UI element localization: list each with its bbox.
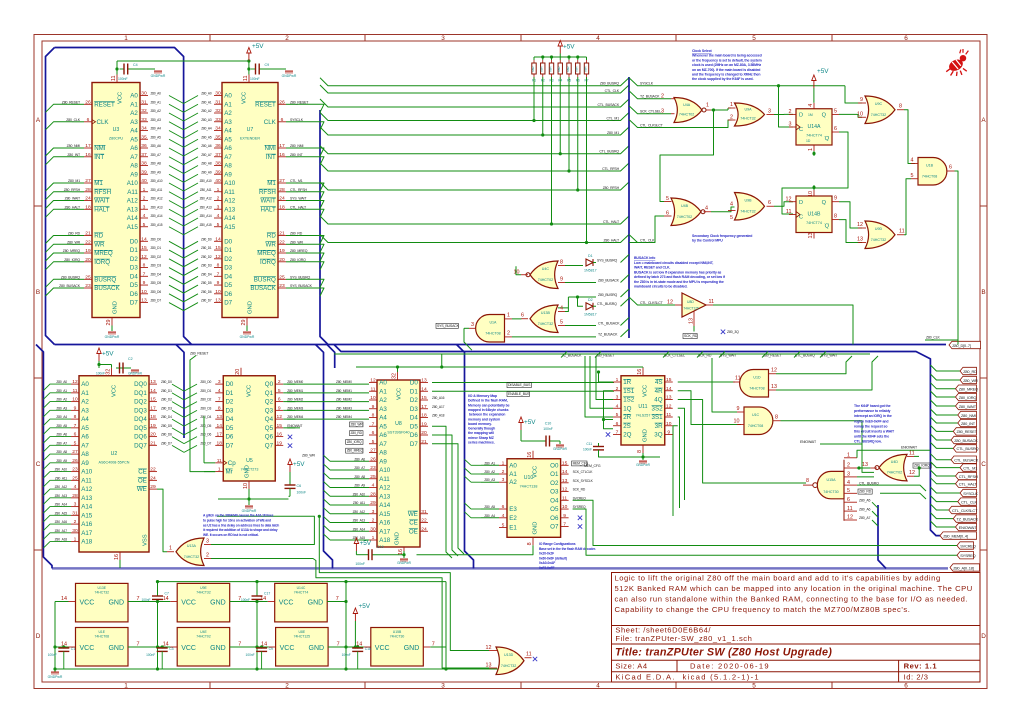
svg-text:30: 30 — [141, 91, 147, 97]
svg-text:Z80_MREQ: Z80_MREQ — [347, 449, 364, 453]
kicad logo — [946, 49, 968, 76]
svg-text:14: 14 — [421, 386, 427, 392]
svg-text:Z80_A11: Z80_A11 — [200, 188, 212, 192]
svg-text:24: 24 — [421, 526, 427, 532]
svg-text:Z80_A3: Z80_A3 — [484, 478, 495, 482]
svg-text:Z80_3Q: Z80_3Q — [727, 330, 739, 334]
svg-text:CTL_BUSACK: CTL_BUSACK — [598, 103, 620, 107]
power U5 +5V C6 — [285, 459, 307, 496]
svg-text:ENABLE_BUS: ENABLE_BUS — [508, 392, 530, 396]
svg-text:D5: D5 — [224, 282, 232, 289]
svg-text:5: 5 — [911, 173, 914, 179]
svg-text:O4: O4 — [550, 497, 559, 504]
svg-text:8: 8 — [899, 104, 902, 110]
wire U5 data bus entries — [184, 384, 197, 452]
svg-text:until the K64F sets the: until the K64F sets the — [854, 435, 889, 439]
svg-text:U15B: U15B — [393, 630, 402, 634]
svg-text:Z80_A1: Z80_A1 — [56, 389, 67, 393]
svg-text:Z80_D6: Z80_D6 — [200, 433, 211, 437]
svg-text:8: 8 — [637, 450, 643, 453]
svg-text:18: 18 — [279, 204, 285, 210]
svg-text:3: 3 — [789, 122, 792, 128]
ic U3 Z80CPU — [59, 75, 140, 326]
power GNDPWR — [282, 71, 297, 78]
svg-text:Z80_RESET: Z80_RESET — [190, 351, 209, 355]
svg-text:A0: A0 — [130, 93, 138, 100]
svg-text:13: 13 — [486, 663, 492, 669]
ic U7 EXTENDER — [222, 75, 313, 326]
svg-text:1: 1 — [507, 313, 510, 319]
svg-text:1M: 1M — [808, 113, 813, 117]
svg-text:TZ_BUSACK: TZ_BUSACK — [956, 516, 978, 521]
wire zone1 right bus entries — [298, 104, 324, 296]
power GNDPWR — [400, 559, 408, 562]
svg-text:Z80_A0: Z80_A0 — [56, 380, 67, 384]
wire U1B pin5 from below — [906, 179, 911, 235]
svg-text:WAIT: WAIT — [94, 198, 109, 205]
svg-text:29: 29 — [150, 484, 156, 490]
svg-text:Z80_A4: Z80_A4 — [56, 415, 67, 419]
svg-text:74HCT32: 74HCT32 — [871, 113, 886, 117]
svg-text:D2: D2 — [588, 298, 593, 302]
svg-text:Z80_A6: Z80_A6 — [201, 144, 212, 148]
svg-text:A6: A6 — [224, 145, 232, 152]
svg-text:GND: GND — [248, 301, 254, 314]
svg-text:D7: D7 — [224, 300, 232, 307]
svg-text:11: 11 — [111, 76, 117, 82]
svg-text:74HCT08: 74HCT08 — [749, 386, 764, 390]
svg-text:D3: D3 — [130, 265, 138, 272]
svg-text:D4: D4 — [225, 416, 233, 423]
svg-text:U4A: U4A — [683, 103, 691, 107]
svg-text:2: 2 — [285, 35, 289, 42]
svg-text:5: 5 — [752, 35, 756, 42]
svg-text:A2: A2 — [379, 397, 387, 404]
svg-text:13: 13 — [215, 298, 221, 304]
svg-text:A14: A14 — [224, 215, 236, 222]
svg-text:10: 10 — [666, 421, 672, 427]
or gate U9D 74HCT32 — [857, 221, 905, 249]
svg-text:Z80_D0: Z80_D0 — [201, 237, 212, 241]
wire ENABLE_BUS — [432, 391, 614, 396]
svg-text:4: 4 — [143, 213, 146, 219]
svg-text:74HCT32: 74HCT32 — [94, 591, 109, 595]
svg-text:A11: A11 — [224, 189, 235, 196]
resistor R4 — [557, 60, 562, 83]
svg-text:+5V: +5V — [817, 68, 829, 75]
svg-text:Z80_D7: Z80_D7 — [201, 299, 212, 303]
svg-text:27: 27 — [72, 449, 78, 455]
svg-text:28: 28 — [279, 187, 285, 193]
wire resistor rail — [534, 54, 587, 61]
svg-text:Memory can potentially be: Memory can potentially be — [468, 403, 510, 407]
wire U1C out — [781, 421, 875, 473]
svg-text:A18: A18 — [379, 537, 391, 544]
svg-text:Z80_RD: Z80_RD — [290, 232, 303, 236]
svg-text:10: 10 — [808, 191, 814, 197]
svg-text:SYS_BUSRQ: SYS_BUSRQ — [597, 258, 617, 262]
svg-text:Q2: Q2 — [265, 399, 274, 406]
svg-text:HALT: HALT — [94, 206, 110, 213]
global label Z80_INT — [958, 419, 977, 426]
svg-text:8: 8 — [217, 263, 220, 269]
svg-text:8: 8 — [834, 214, 837, 220]
svg-text:74HCT138: 74HCT138 — [520, 485, 538, 489]
svg-text:15: 15 — [215, 245, 221, 251]
svg-text:E1: E1 — [509, 525, 517, 532]
svg-text:74HCT74: 74HCT74 — [806, 221, 822, 225]
svg-text:U8: U8 — [395, 421, 402, 427]
svg-text:3: 3 — [372, 509, 375, 515]
svg-text:Z80_D6: Z80_D6 — [151, 290, 162, 294]
svg-text:or the frequency is set to def: or the frequency is set to default, the … — [692, 58, 762, 62]
svg-text:A9: A9 — [130, 171, 138, 178]
svg-text:D6: D6 — [130, 291, 138, 298]
svg-text:74HCT02: 74HCT02 — [538, 278, 553, 282]
svg-text:4R: 4R — [655, 388, 663, 395]
svg-text:25: 25 — [279, 274, 285, 280]
svg-text:13: 13 — [808, 233, 814, 239]
svg-text:38: 38 — [215, 161, 221, 167]
svg-text:74HCT74: 74HCT74 — [294, 591, 309, 595]
wire U5 gnd rail — [218, 489, 289, 505]
svg-text:Z80_D4: Z80_D4 — [151, 272, 162, 276]
svg-text:1: 1 — [730, 102, 733, 108]
svg-text:U13D: U13D — [504, 653, 514, 657]
wire U11 right connections — [673, 382, 806, 516]
svg-text:VCC: VCC — [533, 466, 539, 478]
power +5V zone4 — [353, 603, 371, 647]
svg-text:A0: A0 — [509, 462, 517, 469]
svg-text:E3: E3 — [509, 506, 517, 513]
svg-text:CTL_M1: CTL_M1 — [290, 179, 303, 183]
svg-text:Z80_A1: Z80_A1 — [201, 100, 212, 104]
svg-text:U13E: U13E — [98, 586, 107, 590]
svg-text:U1B: U1B — [926, 164, 934, 168]
and gate U1D 74HCT08 mirrored — [733, 368, 777, 398]
wire Z80_BUSRQ row — [558, 289, 629, 308]
svg-text:WE. It occurs on RD but is not: WE. It occurs on RD but is not critical. — [203, 533, 259, 537]
flip-flop U14A 74HCT74 — [789, 103, 840, 151]
svg-text:WR: WR — [265, 241, 276, 248]
capacitor C1 — [48, 645, 75, 669]
wire U3 gnd — [111, 326, 113, 332]
svg-text:D6: D6 — [225, 434, 233, 441]
svg-text:Z80_D7: Z80_D7 — [161, 441, 172, 445]
wire U14A +5V — [812, 68, 830, 103]
svg-text:Z80_D2: Z80_D2 — [151, 255, 162, 259]
svg-text:3: 3 — [441, 35, 445, 42]
resistor R2 — [540, 60, 545, 83]
svg-text:74HCT08: 74HCT08 — [748, 424, 763, 428]
power unit U1E 74HCT08 — [61, 628, 140, 667]
svg-text:10: 10 — [370, 395, 376, 401]
svg-text:6: 6 — [768, 200, 771, 206]
svg-text:Z80_D3: Z80_D3 — [200, 406, 211, 410]
svg-text:D0: D0 — [130, 238, 138, 245]
power +5V — [353, 603, 371, 621]
svg-text:Z80_A11: Z80_A11 — [151, 188, 163, 192]
svg-text:ENIOWAIT: ENIOWAIT — [901, 446, 918, 450]
svg-text:5: 5 — [143, 222, 146, 228]
svg-text:Q1: Q1 — [265, 390, 274, 397]
svg-text:4: 4 — [372, 483, 375, 489]
note text — [692, 234, 752, 243]
svg-text:EXTENDER: EXTENDER — [240, 137, 260, 141]
svg-text:A5: A5 — [224, 136, 232, 143]
svg-text:C9: C9 — [269, 647, 273, 651]
svg-text:VCC: VCC — [112, 385, 118, 397]
svg-text:Z80_CLK: Z80_CLK — [926, 336, 941, 340]
svg-text:Z80_RFSH: Z80_RFSH — [603, 186, 620, 190]
svg-text:12: 12 — [141, 254, 147, 260]
svg-text:74HCT32: 74HCT32 — [740, 117, 755, 121]
svg-text:CTL_CLK: CTL_CLK — [605, 89, 620, 93]
svg-text:A2: A2 — [81, 399, 89, 406]
svg-text:U1E: U1E — [98, 630, 105, 634]
svg-text:Z80_HALT: Z80_HALT — [65, 205, 81, 209]
global label Z80_WR — [960, 376, 978, 383]
svg-text:D7: D7 — [410, 441, 418, 448]
svg-text:Z80_MEM3: Z80_MEM3 — [287, 406, 303, 410]
svg-text:E2: E2 — [509, 515, 517, 522]
svg-text:GNDPwR: GNDPwR — [282, 74, 297, 78]
svg-text:D3: D3 — [410, 406, 418, 413]
wire ENIOWAIT row — [800, 440, 862, 444]
svg-text:Z80_NMI: Z80_NMI — [290, 144, 304, 148]
svg-text:A18: A18 — [81, 539, 93, 546]
svg-text:Q0: Q0 — [265, 381, 274, 388]
svg-text:C: C — [36, 461, 41, 468]
svg-text:74HCT32: 74HCT32 — [740, 209, 755, 213]
svg-text:U9E: U9E — [200, 586, 207, 590]
svg-text:Title: tranZPUter SW (Z80 Host: Title: tranZPUter SW (Z80 Host Upgrade) — [615, 647, 832, 659]
svg-text:74HCT32: 74HCT32 — [871, 238, 886, 242]
svg-text:MREQ: MREQ — [257, 250, 276, 257]
svg-text:Z80_MEM3: Z80_MEM3 — [336, 406, 352, 410]
svg-text:8: 8 — [806, 478, 809, 484]
svg-text:this circuit inserts a WAIT: this circuit inserts a WAIT — [854, 430, 895, 434]
svg-text:39: 39 — [141, 169, 147, 175]
and gate U1C 74HCT08 — [734, 406, 781, 435]
svg-text:+5V: +5V — [524, 419, 536, 426]
svg-text:Z80_A10: Z80_A10 — [200, 179, 212, 183]
svg-text:M1: M1 — [267, 180, 276, 187]
svg-text:VCC: VCC — [375, 645, 390, 652]
wire U8 address entries from bus — [324, 455, 370, 540]
global label SVCREQ — [957, 542, 976, 549]
svg-text:Z80_MEM1: Z80_MEM1 — [336, 389, 352, 393]
svg-text:VCC: VCC — [181, 600, 196, 607]
wire U5 cp mr — [190, 351, 215, 471]
svg-text:ENIOWAIT: ENIOWAIT — [287, 424, 302, 428]
svg-text:C4: C4 — [133, 63, 138, 67]
svg-text:U1A: U1A — [489, 321, 497, 325]
svg-text:Z80_MEM1: Z80_MEM1 — [287, 389, 303, 393]
wire Z80_CLK output — [925, 171, 958, 345]
wire control rows from zone1 to clock bus — [320, 78, 629, 243]
svg-text:100nF: 100nF — [48, 653, 57, 657]
global label Z80_MEM[0..4] — [940, 532, 977, 539]
global label CTL_CLKSLCT — [949, 506, 978, 513]
svg-text:28: 28 — [85, 187, 91, 193]
svg-text:D: D — [36, 633, 41, 640]
power +5V — [812, 68, 830, 88]
svg-text:Z80_A10: Z80_A10 — [353, 492, 366, 496]
svg-text:A9: A9 — [379, 458, 387, 465]
capacitor C4 — [118, 63, 155, 81]
svg-text:by the Control MPU: by the Control MPU — [692, 239, 723, 243]
svg-text:14: 14 — [141, 236, 147, 242]
svg-text:12: 12 — [771, 368, 777, 374]
svg-text:25: 25 — [85, 274, 91, 280]
wire U14B preset — [812, 185, 815, 190]
ic U10 74HCT138 — [481, 451, 594, 546]
svg-text:2: 2 — [730, 115, 733, 121]
svg-text:27: 27 — [85, 178, 91, 184]
svg-text:A15: A15 — [224, 224, 236, 231]
svg-text:13: 13 — [217, 414, 223, 420]
svg-text:40: 40 — [215, 178, 221, 184]
wire U13A connections — [157, 489, 489, 668]
svg-text:A11: A11 — [127, 189, 138, 196]
svg-text:RD: RD — [94, 233, 103, 240]
svg-text:MEM_CFG: MEM_CFG — [584, 464, 601, 468]
svg-text:SYS_BUSRQ: SYS_BUSRQ — [290, 275, 310, 279]
svg-text:Z80_BUSACK: Z80_BUSACK — [954, 438, 978, 443]
svg-text:DQ6: DQ6 — [134, 434, 147, 441]
svg-text:GNDPwR: GNDPwR — [240, 335, 255, 339]
capacitor C17 — [241, 592, 270, 603]
svg-text:9: 9 — [860, 97, 863, 103]
wire SYSCLK row — [629, 78, 862, 127]
svg-text:A3: A3 — [379, 406, 387, 413]
wire power zone rails — [53, 580, 515, 672]
svg-text:Z80_D2: Z80_D2 — [200, 398, 211, 402]
svg-text:1N5817: 1N5817 — [584, 312, 597, 316]
svg-text:17: 17 — [421, 404, 427, 410]
and gate U1A 74HCT08 mirrored — [469, 313, 512, 343]
svg-text:5: 5 — [502, 523, 505, 529]
svg-text:2: 2 — [502, 469, 505, 475]
svg-text:5: 5 — [730, 215, 733, 221]
nor gate U4A 74HCT02 — [671, 98, 711, 123]
svg-text:14: 14 — [150, 388, 156, 394]
bus H2 control — [334, 345, 941, 536]
svg-text:6: 6 — [74, 432, 77, 438]
svg-text:74HCT125: 74HCT125 — [683, 306, 699, 310]
svg-text:4: 4 — [705, 206, 708, 212]
svg-text:2: 2 — [278, 379, 281, 385]
svg-text:0xF2-0xFF: 0xF2-0xFF — [539, 566, 554, 570]
svg-text:Z80_A17: Z80_A17 — [55, 529, 68, 533]
or gate U9B 74HCT32 — [728, 193, 774, 222]
svg-text:26: 26 — [370, 456, 376, 462]
svg-text:GND: GND — [395, 532, 401, 545]
svg-text:Z80_NMI: Z80_NMI — [67, 144, 81, 148]
svg-text:74HCT02: 74HCT02 — [677, 215, 692, 219]
svg-text:D: D — [981, 633, 986, 640]
svg-text:A6: A6 — [379, 432, 387, 439]
or gate U13A 74HCT32 mirrored — [167, 538, 211, 566]
svg-text:D4: D4 — [410, 415, 418, 422]
capacitor C3 — [146, 645, 173, 669]
svg-text:VCC: VCC — [279, 600, 294, 607]
svg-text:23: 23 — [85, 283, 91, 289]
svg-text:A3: A3 — [81, 407, 89, 414]
svg-text:29: 29 — [241, 320, 247, 326]
svg-text:7: 7 — [616, 430, 619, 436]
svg-text:it required the addition of U1: it required the addition of U13A to shap… — [203, 528, 278, 532]
power U8 decoupling C10 — [519, 417, 560, 447]
global label CTL_BUSRQ — [953, 445, 978, 452]
svg-text:74HCT30: 74HCT30 — [823, 490, 838, 494]
svg-text:1N5817: 1N5817 — [584, 269, 597, 273]
svg-text:Z80_A7: Z80_A7 — [201, 153, 212, 157]
svg-text:Z80_A8: Z80_A8 — [151, 162, 162, 166]
svg-text:5: 5 — [616, 412, 619, 418]
svg-text:DQ1: DQ1 — [134, 390, 147, 397]
svg-text:3: 3 — [218, 379, 221, 385]
wire U13D inputs — [0, 0, 1, 1]
svg-text:I/O & Memory Map: I/O & Memory Map — [468, 394, 497, 398]
svg-text:Z80_MEM[0..4]: Z80_MEM[0..4] — [943, 533, 968, 538]
svg-text:CE: CE — [138, 469, 147, 476]
svg-text:GND: GND — [245, 465, 251, 478]
wire TZ_BUSACK row — [629, 91, 671, 100]
svg-text:Z80_A12: Z80_A12 — [55, 485, 68, 489]
svg-text:40: 40 — [141, 178, 147, 184]
svg-text:RESET: RESET — [255, 101, 276, 108]
svg-text:Z80_A4: Z80_A4 — [151, 127, 162, 131]
svg-text:9: 9 — [74, 405, 77, 411]
svg-text:6: 6 — [372, 430, 375, 436]
svg-text:Z80_A14: Z80_A14 — [55, 503, 68, 507]
svg-text:INT: INT — [94, 154, 104, 161]
svg-text:The K64F hasnt got the: The K64F hasnt got the — [854, 404, 891, 408]
svg-text:68R: 68R — [584, 66, 588, 72]
svg-text:CTL_HALT: CTL_HALT — [603, 220, 620, 224]
svg-text:74HCT32: 74HCT32 — [501, 664, 516, 668]
svg-text:20: 20 — [235, 369, 241, 375]
svg-text:4: 4 — [596, 683, 600, 690]
svg-text:CTL_BUSACK: CTL_BUSACK — [598, 321, 620, 325]
svg-text:Z80_D[0..7]: Z80_D[0..7] — [952, 343, 971, 348]
svg-text:BUSACK is set low if expansion: BUSACK is set low if expansion memory ha… — [634, 270, 721, 274]
wire U4A out — [660, 108, 731, 202]
svg-text:GND: GND — [643, 429, 649, 442]
svg-text:25: 25 — [72, 475, 78, 481]
resistor R6 — [575, 60, 580, 83]
svg-text:Z80_IORQ: Z80_IORQ — [959, 395, 977, 400]
svg-text:A15: A15 — [81, 512, 93, 519]
wire U14A Qbar feedback — [782, 132, 848, 214]
svg-text:26: 26 — [72, 458, 78, 464]
svg-text:the Z80 is in tri-state mode a: the Z80 is in tri-state mode and the MPU… — [634, 280, 724, 284]
svg-text:1: 1 — [124, 35, 128, 42]
svg-text:9: 9 — [563, 513, 566, 519]
svg-text:30: 30 — [370, 526, 376, 532]
svg-text:1D: 1D — [806, 139, 811, 143]
svg-text:A0: A0 — [379, 380, 387, 387]
svg-text:DISABLE_BUS: DISABLE_BUS — [508, 383, 531, 387]
svg-text:5: 5 — [560, 320, 563, 326]
svg-text:Z80_A7: Z80_A7 — [56, 441, 67, 445]
svg-text:5: 5 — [74, 440, 77, 446]
power +5V — [519, 417, 536, 430]
power unit U13E 74HCT32 — [61, 583, 140, 622]
svg-text:Z80_A2: Z80_A2 — [201, 109, 212, 113]
